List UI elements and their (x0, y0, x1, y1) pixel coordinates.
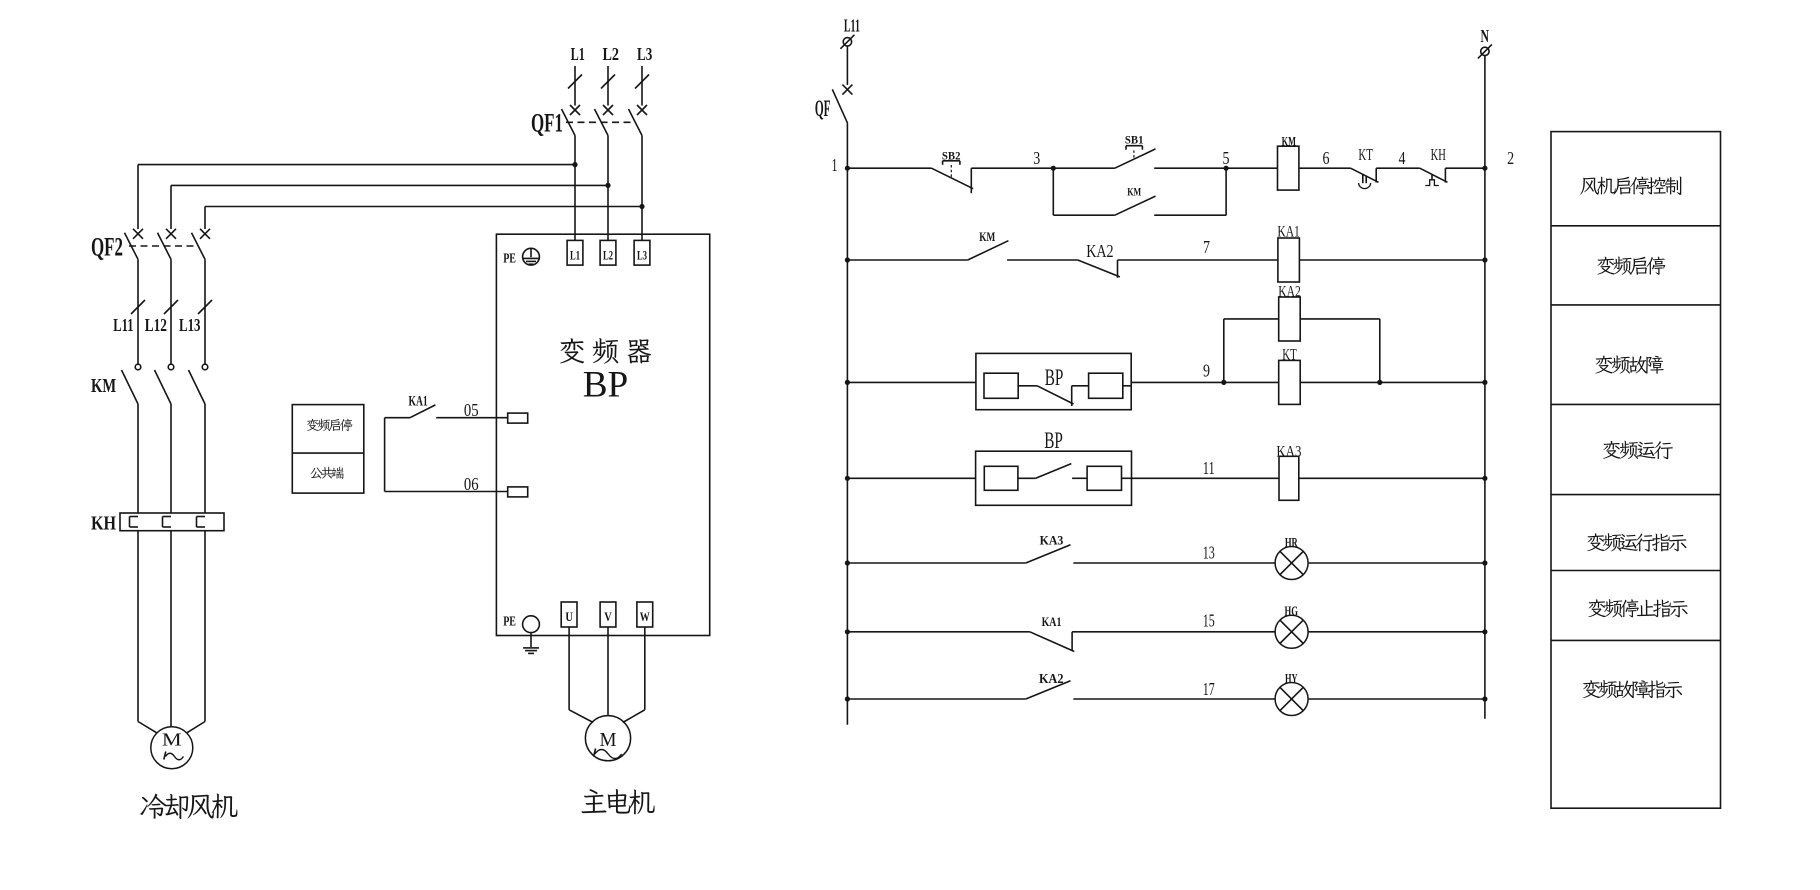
svg-text:L1: L1 (571, 44, 585, 64)
svg-text:1: 1 (832, 155, 838, 175)
svg-text:L11: L11 (113, 315, 133, 335)
svg-text:V: V (604, 609, 612, 624)
svg-text:PE: PE (503, 614, 516, 629)
svg-text:PE: PE (503, 251, 516, 266)
svg-text:KH: KH (91, 513, 116, 535)
svg-text:KM: KM (979, 229, 995, 244)
svg-text:L13: L13 (179, 315, 201, 335)
svg-text:05: 05 (464, 400, 479, 420)
svg-text:3: 3 (1033, 148, 1040, 168)
svg-text:9: 9 (1203, 360, 1210, 380)
svg-text:L2: L2 (603, 248, 613, 263)
svg-text:M: M (162, 730, 182, 750)
svg-text:M: M (600, 730, 617, 751)
svg-text:HG: HG (1285, 605, 1299, 620)
svg-text:KA3: KA3 (1040, 533, 1064, 548)
svg-text:QF2: QF2 (91, 232, 123, 262)
svg-text:KH: KH (1431, 145, 1446, 164)
svg-text:BP: BP (1044, 428, 1063, 454)
svg-text:KA2: KA2 (1039, 671, 1064, 686)
svg-text:17: 17 (1203, 679, 1215, 699)
svg-text:HY: HY (1285, 672, 1298, 687)
svg-text:2: 2 (1507, 148, 1514, 168)
svg-text:SB1: SB1 (1125, 135, 1144, 147)
svg-text:L11: L11 (844, 16, 860, 36)
svg-text:KM: KM (91, 375, 116, 397)
svg-text:QF1: QF1 (531, 107, 563, 137)
svg-text:6: 6 (1323, 148, 1330, 168)
svg-text:KA1: KA1 (1042, 615, 1062, 629)
svg-text:L3: L3 (637, 44, 652, 64)
svg-text:KA2: KA2 (1086, 241, 1113, 261)
svg-text:W: W (640, 609, 650, 624)
svg-text:HR: HR (1285, 536, 1298, 551)
svg-text:5: 5 (1223, 148, 1230, 168)
svg-text:BP: BP (583, 365, 629, 406)
svg-text:QF: QF (815, 96, 831, 121)
svg-text:BP: BP (1045, 365, 1064, 391)
svg-text:15: 15 (1203, 611, 1215, 631)
svg-text:KA2: KA2 (1278, 284, 1301, 301)
svg-text:KA3: KA3 (1276, 444, 1301, 461)
svg-text:U: U (565, 609, 573, 624)
svg-text:L12: L12 (145, 315, 167, 335)
svg-text:L1: L1 (570, 248, 580, 263)
svg-text:06: 06 (464, 474, 479, 494)
svg-text:KM: KM (1282, 134, 1296, 149)
svg-text:KT: KT (1358, 145, 1373, 164)
svg-text:KA1: KA1 (409, 394, 428, 410)
svg-text:4: 4 (1399, 148, 1406, 168)
svg-text:KA1: KA1 (1277, 224, 1300, 241)
svg-text:L2: L2 (602, 44, 619, 64)
svg-text:7: 7 (1203, 237, 1210, 257)
svg-text:N: N (1481, 26, 1490, 46)
svg-text:11: 11 (1203, 458, 1215, 478)
svg-text:SB2: SB2 (942, 150, 961, 162)
svg-text:L3: L3 (637, 248, 647, 263)
svg-text:13: 13 (1203, 543, 1215, 563)
svg-text:KT: KT (1282, 347, 1297, 364)
svg-text:KM: KM (1127, 186, 1141, 198)
